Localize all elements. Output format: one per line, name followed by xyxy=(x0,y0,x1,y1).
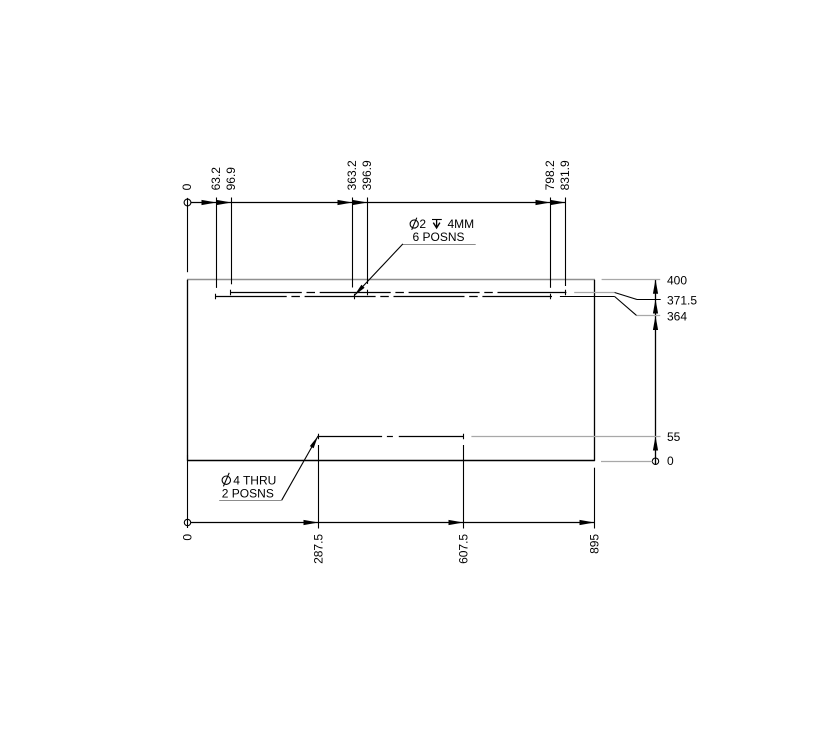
svg-text:55: 55 xyxy=(667,430,681,444)
svg-text:4MM: 4MM xyxy=(448,217,475,231)
svg-text:0: 0 xyxy=(180,183,194,190)
svg-text:831.9: 831.9 xyxy=(558,160,572,190)
svg-text:607.5: 607.5 xyxy=(457,534,471,564)
svg-text:400: 400 xyxy=(667,273,687,287)
svg-text:63.2: 63.2 xyxy=(209,167,223,191)
svg-text:96.9: 96.9 xyxy=(224,167,238,191)
svg-text:363.2: 363.2 xyxy=(345,160,359,190)
svg-text:287.5: 287.5 xyxy=(312,534,326,564)
svg-text:0: 0 xyxy=(667,454,674,468)
svg-text:371.5: 371.5 xyxy=(667,294,697,308)
svg-text:0: 0 xyxy=(181,534,195,541)
svg-text:2 POSNS: 2 POSNS xyxy=(222,486,274,500)
svg-text:6 POSNS: 6 POSNS xyxy=(413,230,465,244)
svg-text:895: 895 xyxy=(588,534,602,554)
svg-text:2: 2 xyxy=(419,217,426,231)
svg-text:364: 364 xyxy=(667,309,687,323)
svg-text:798.2: 798.2 xyxy=(543,160,557,190)
svg-text:396.9: 396.9 xyxy=(360,160,374,190)
